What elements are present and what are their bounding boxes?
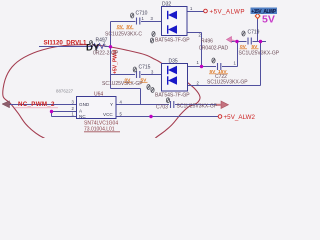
svg-text:0R0402-PAD: 0R0402-PAD (199, 46, 228, 52)
wire vertical to C722 row (237, 42, 239, 67)
resistor R496 (selected pink) (227, 37, 238, 43)
diode D32b (168, 25, 177, 33)
svg-text:SC1U25V3KX-C: SC1U25V3KX-C (105, 32, 142, 38)
svg-text:8876227: 8876227 (56, 89, 74, 94)
wire NC_PWM_2 row (8, 104, 77, 106)
svg-text:C715: C715 (139, 65, 151, 71)
wire SI1120_DRVL1 row (39, 46, 111, 48)
svg-text:SC1U25V3KX-GP: SC1U25V3KX-GP (102, 81, 143, 87)
junction node U64 pin2 (50, 110, 53, 113)
wire C710 row (111, 21, 162, 23)
capacitor C722 (218, 63, 221, 70)
DNI marker D35 a (147, 85, 150, 90)
svg-text:5V: 5V (262, 14, 275, 26)
wire C719 row (232, 41, 267, 43)
wire rail A vertical (111, 22, 141, 105)
svg-text:SC1U25V3KX-GP: SC1U25V3KX-GP (239, 51, 280, 57)
wire U64 Y / C703 row (116, 104, 221, 106)
svg-text:0R22-2-GP: 0R22-2-GP (93, 51, 119, 57)
capacitor C715 (137, 71, 140, 78)
resistor R497 (93, 44, 105, 49)
DNI marker C715 (133, 67, 136, 72)
component box D35 (162, 64, 188, 92)
diode D35b (168, 76, 177, 84)
DNI marker C703 (166, 98, 169, 103)
svg-text:GND: GND (79, 102, 90, 107)
wire U64 pin1 (52, 112, 77, 117)
power symbol 5V top right (255, 13, 260, 18)
component box U64 (77, 97, 117, 119)
wire 5V power vertical (257, 19, 259, 42)
wire C715 row (111, 74, 162, 76)
power circle +5V_ALW2 (218, 115, 222, 119)
DNI marker SC1U25V3KX-C (152, 32, 155, 37)
off-page connector right arrow (216, 101, 229, 109)
svg-text:SC1U25V3KX-GP: SC1U25V3KX-GP (177, 104, 218, 110)
capacitor C719 (248, 38, 251, 45)
wire VCC rail +5V_ALW2 (116, 116, 218, 118)
junction node R497/rail (109, 45, 112, 48)
svg-text:C703: C703 (156, 105, 168, 111)
wire C722 row (178, 67, 238, 71)
svg-text:BAT54S-7F-GP: BAT54S-7F-GP (155, 93, 190, 99)
svg-text:NC_PWM_2: NC_PWM_2 (18, 101, 55, 108)
svg-text:C719: C719 (248, 30, 260, 36)
svg-text:SC1U25V3KX-GP: SC1U25V3KX-GP (207, 80, 248, 86)
junction node D35 pin1 (200, 65, 203, 68)
capacitor C703 (171, 101, 174, 108)
DNI marker BAT54S D32 (150, 38, 153, 43)
svg-text:BAT54S-7F-GP: BAT54S-7F-GP (155, 38, 190, 44)
svg-text:+15V_ALWP: +15V_ALWP (251, 9, 277, 15)
svg-text:+5V_ALWP: +5V_ALWP (210, 8, 245, 15)
svg-text:NC: NC (79, 114, 86, 119)
annotation ellipse (3, 45, 200, 150)
DNI marker D35 b (151, 88, 154, 93)
svg-text:SI1120_DRVL1: SI1120_DRVL1 (44, 40, 88, 47)
diode D32a (168, 11, 177, 19)
svg-text:D32: D32 (162, 2, 171, 8)
DNI marker C719 (242, 31, 245, 36)
svg-text:D35: D35 (169, 59, 178, 65)
junction node C719 right (259, 40, 262, 43)
DNI marker R497 (89, 41, 92, 46)
junction node C719 left (235, 40, 238, 43)
svg-text:+5V_ALW2: +5V_ALW2 (224, 114, 256, 121)
power circle +5V_ALWP (204, 9, 208, 13)
capacitor C710 (137, 18, 140, 25)
svg-text:R496: R496 (201, 39, 213, 45)
wire D32 pin2 down (178, 30, 202, 67)
svg-text:VCC: VCC (103, 112, 113, 117)
DNI marker C722 (212, 58, 215, 63)
selected net label +15V_ALWP (251, 8, 278, 16)
junction node VCC rail (149, 115, 152, 118)
DNI marker C710 (131, 13, 134, 18)
wire D32 pin1 to +5V_ALWP (178, 12, 204, 16)
off-page connector NC_PWM_2 (left arrow) (2, 101, 10, 108)
wire U64 pin2 (52, 111, 77, 113)
svg-text:U64: U64 (94, 92, 103, 98)
diode D35a (168, 66, 177, 74)
wire D35 internal (162, 70, 168, 81)
svg-text:Y: Y (110, 102, 113, 107)
component box D32 (162, 7, 188, 36)
wire rail x261 and D35 pin2 row (178, 42, 261, 86)
wire D32 internal (162, 15, 168, 30)
